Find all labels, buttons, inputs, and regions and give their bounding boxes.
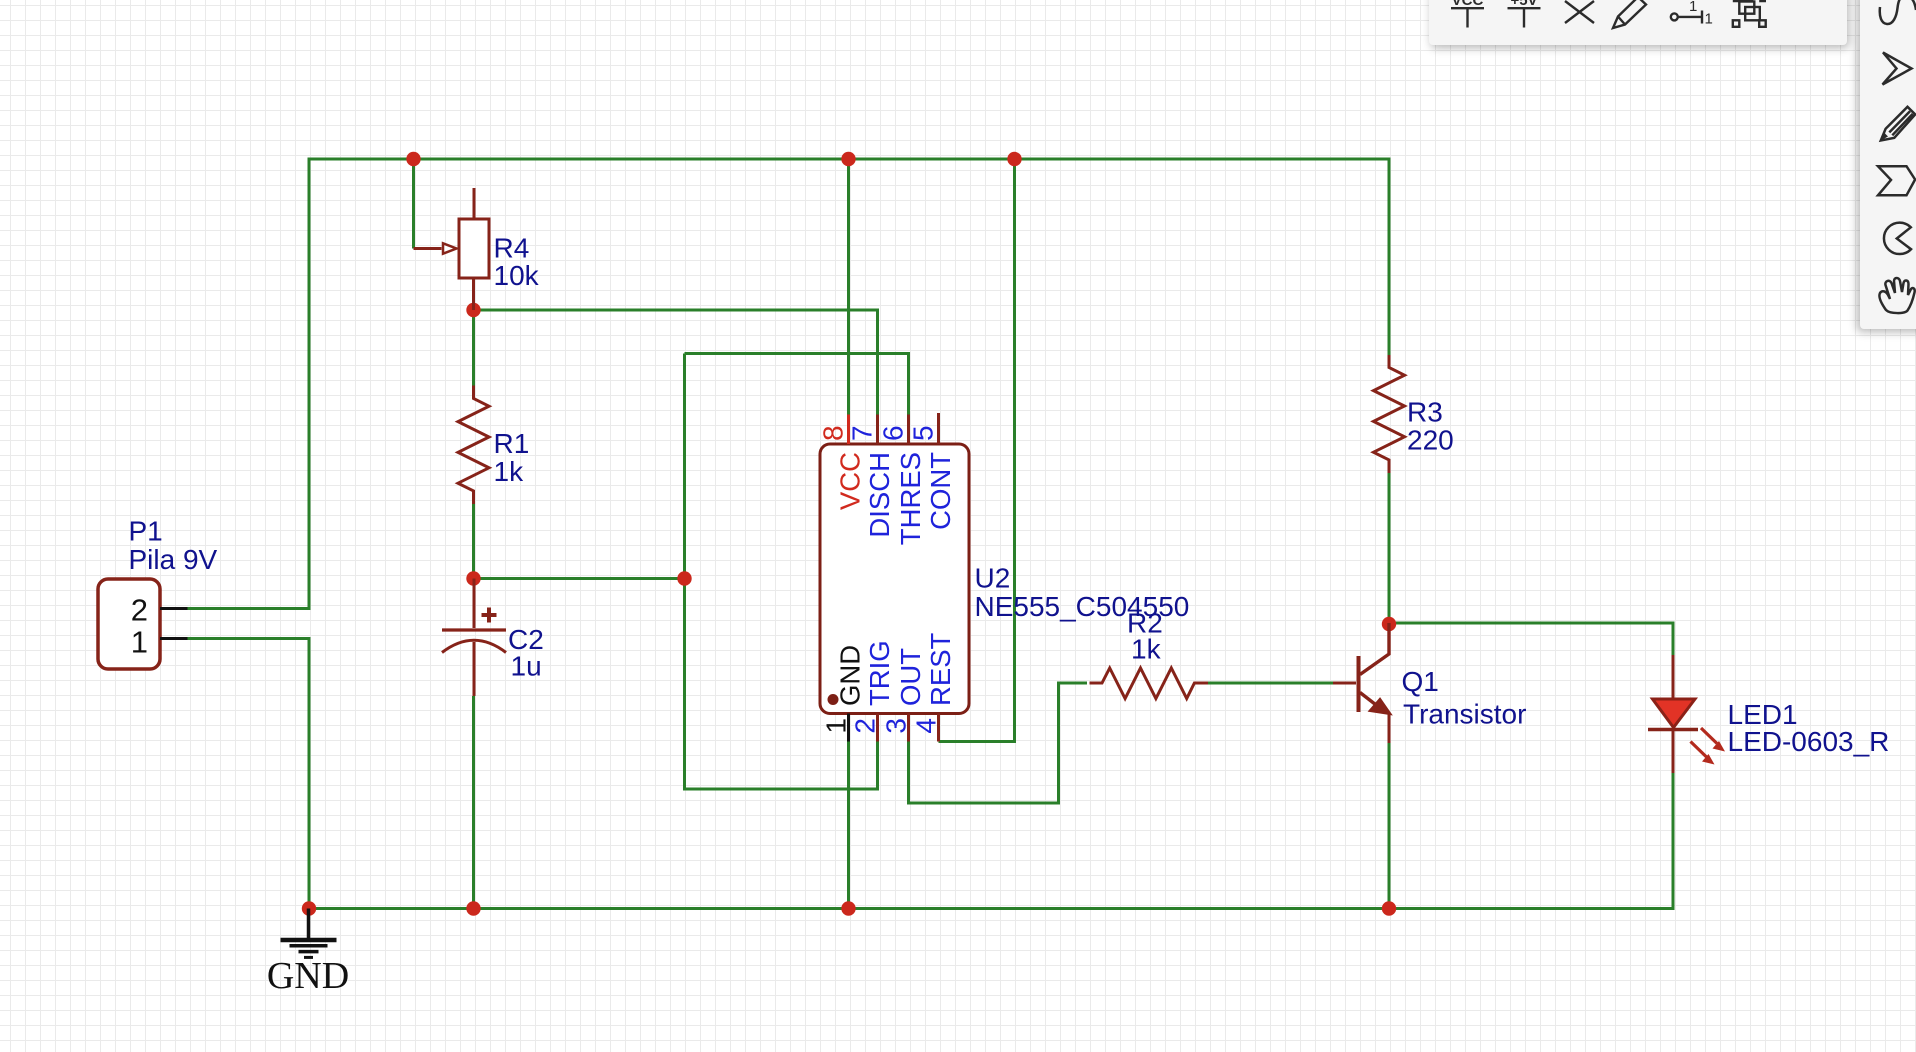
LED1 bottom lead bbox=[1672, 731, 1675, 773]
svg-text:LED-0603_R: LED-0603_R bbox=[1728, 726, 1890, 757]
wire R4 bottom to U2 pin7 DISCH bbox=[474, 310, 878, 415]
U2 pin 2 stub bbox=[876, 714, 879, 742]
junction node TRIG vertical bbox=[677, 571, 691, 585]
svg-text:3: 3 bbox=[881, 718, 912, 734]
junction bottom rail Q1 emitter bbox=[1382, 901, 1396, 915]
U2 pin 3 stub bbox=[907, 714, 910, 742]
resistor R2 bbox=[1090, 668, 1209, 699]
junction bottom rail GND bbox=[302, 901, 316, 915]
capacitor C2 bottom lead bbox=[473, 642, 476, 696]
junction bottom rail C2 bbox=[466, 901, 480, 915]
tool icon pencil bbox=[1881, 107, 1915, 141]
tool icon wire squiggle bbox=[1880, 0, 1916, 24]
svg-text:8: 8 bbox=[818, 425, 849, 441]
wire TRIG net vertical and to U2 pin2 bbox=[685, 354, 878, 790]
LED1 triangle bbox=[1653, 699, 1696, 728]
LED1 emission arrow 2 bbox=[1691, 742, 1707, 758]
potentiometer R4 top stub bbox=[473, 188, 476, 219]
wire R3 bottom to Q1 collector node bbox=[1388, 473, 1391, 623]
U2 pin 7 stub bbox=[876, 415, 879, 445]
toolbar icon paste bbox=[1739, 2, 1754, 14]
transistor Q1 collector bbox=[1360, 623, 1389, 675]
junction bottom rail U2 pin1 bbox=[841, 901, 855, 915]
ground symbol stem bbox=[307, 909, 311, 939]
U2 pin 6 stub bbox=[907, 415, 910, 445]
P1 pin 2 lead bbox=[160, 607, 188, 610]
svg-text:1: 1 bbox=[131, 625, 148, 660]
svg-text:R1: R1 bbox=[494, 428, 530, 459]
svg-text:DISCH: DISCH bbox=[864, 452, 895, 538]
junction top rail at pin8 VCC bbox=[841, 152, 855, 166]
svg-text:Q1: Q1 bbox=[1402, 666, 1439, 697]
tool icon arrow bbox=[1883, 53, 1912, 85]
svg-text:10k: 10k bbox=[494, 260, 540, 291]
resistor R3 bbox=[1374, 355, 1405, 473]
junction node C2 top bbox=[466, 571, 480, 585]
LED1 emission arrow 1 bbox=[1701, 728, 1717, 744]
wire R4 wiper drop bbox=[412, 159, 415, 249]
P1 pin 1 lead bbox=[160, 637, 188, 640]
ground symbol bars bbox=[281, 938, 337, 943]
potentiometer R4 body bbox=[459, 219, 489, 278]
svg-text:OUT: OUT bbox=[895, 648, 926, 706]
wire U2 pin1 GND to bottom rail bbox=[847, 742, 850, 909]
op-amp U2 body bbox=[820, 444, 969, 714]
svg-text:Transistor: Transistor bbox=[1403, 699, 1526, 730]
transistor Q1 emitter bbox=[1360, 693, 1380, 709]
wire C2 bottom to bottom rail bbox=[472, 696, 475, 909]
wire U2 pin3 OUT to R2 bbox=[909, 683, 1088, 803]
U2 pin 5 stub bbox=[937, 413, 940, 444]
transistor Q1 emitter arrowhead bbox=[1370, 699, 1391, 715]
svg-text:GND: GND bbox=[267, 955, 349, 997]
junction node Q1 collector bbox=[1382, 617, 1396, 631]
svg-text:2: 2 bbox=[850, 718, 881, 734]
svg-text:P1: P1 bbox=[129, 516, 163, 547]
transistor Q1 base bar bbox=[1357, 656, 1361, 712]
wire collector node to LED1 top bbox=[1389, 623, 1673, 655]
svg-text:THRES: THRES bbox=[895, 452, 926, 545]
junction top rail at R4 wiper bbox=[406, 152, 420, 166]
potentiometer R4 wiper arrow bbox=[443, 243, 457, 253]
svg-text:R3: R3 bbox=[1407, 397, 1443, 428]
capacitor C2 top plate bbox=[442, 628, 506, 631]
toolbar icon net port bbox=[1671, 13, 1678, 20]
svg-text:TRIG: TRIG bbox=[864, 640, 895, 706]
svg-text:220: 220 bbox=[1407, 425, 1454, 456]
svg-text:7: 7 bbox=[847, 425, 878, 441]
svg-text:1k: 1k bbox=[494, 456, 525, 487]
svg-text:R4: R4 bbox=[494, 233, 530, 264]
tool icon flag bbox=[1878, 166, 1915, 195]
svg-text:2: 2 bbox=[131, 593, 148, 628]
wire R4 bottom to R1 top bbox=[472, 310, 475, 386]
svg-text:1: 1 bbox=[821, 718, 852, 734]
wire R2 to Q1 base bbox=[1208, 682, 1333, 685]
wire P1 pin1 to bottom rail bbox=[188, 639, 310, 909]
junction node R4 bottom bbox=[466, 303, 480, 317]
resistor R1 bbox=[458, 386, 489, 505]
U2 pin 1 stub bbox=[847, 714, 850, 742]
wire VCC top rail with P1 pin2 branch and R3 drop bbox=[188, 159, 1390, 609]
wire C2 node to TRIG/THRES vertical bbox=[474, 577, 685, 580]
wire R1 bottom to C2 top node bbox=[472, 504, 475, 579]
connector P1 body bbox=[98, 579, 160, 669]
U2 pin1 marker dot bbox=[828, 694, 839, 705]
potentiometer R4 wiper line bbox=[414, 247, 442, 250]
svg-text:VCC: VCC bbox=[835, 452, 866, 510]
svg-text:CONT: CONT bbox=[925, 452, 956, 530]
svg-text:Pila 9V: Pila 9V bbox=[129, 544, 218, 575]
capacitor C2 bottom plate arc bbox=[442, 640, 506, 652]
toolbar icon X bbox=[1565, 1, 1594, 23]
svg-text:1u: 1u bbox=[511, 651, 542, 682]
svg-text:1k: 1k bbox=[1131, 634, 1162, 665]
U2 pin 8 stub VCC bbox=[847, 415, 850, 445]
toolbar icon pen bbox=[1613, 0, 1646, 28]
transistor Q1 emitter lead bbox=[1388, 713, 1391, 743]
capacitor C2 top lead bbox=[473, 579, 476, 629]
transistor Q1 base lead bbox=[1333, 682, 1356, 685]
wire THRES net to U2 pin6 bbox=[685, 354, 909, 415]
U2 pin 4 stub bbox=[937, 714, 940, 742]
potentiometer R4 bottom lead bbox=[472, 278, 475, 310]
wire GND bottom rail to LED bottom bbox=[309, 773, 1673, 909]
svg-text:1: 1 bbox=[1705, 11, 1713, 28]
capacitor C2 plus sign bbox=[482, 608, 497, 623]
svg-text:GND: GND bbox=[835, 645, 866, 706]
svg-text:REST: REST bbox=[925, 632, 956, 706]
wire VCC rail to U2 pin8 bbox=[847, 159, 850, 415]
svg-text:6: 6 bbox=[878, 425, 909, 441]
LED1 top lead bbox=[1672, 655, 1675, 699]
svg-text:U2: U2 bbox=[975, 563, 1011, 594]
junction top rail at REST drop bbox=[1007, 152, 1021, 166]
LED1 cathode bar bbox=[1648, 728, 1698, 732]
wire Q1 emitter to bottom rail bbox=[1388, 743, 1391, 909]
svg-text:5: 5 bbox=[908, 425, 939, 441]
tool icon hand bbox=[1879, 278, 1914, 313]
wire VCC rail to U2 pin4 REST bbox=[939, 159, 1015, 742]
svg-text:1: 1 bbox=[1689, 0, 1697, 15]
tool icon arc pacman bbox=[1884, 223, 1911, 254]
svg-text:4: 4 bbox=[911, 718, 942, 734]
